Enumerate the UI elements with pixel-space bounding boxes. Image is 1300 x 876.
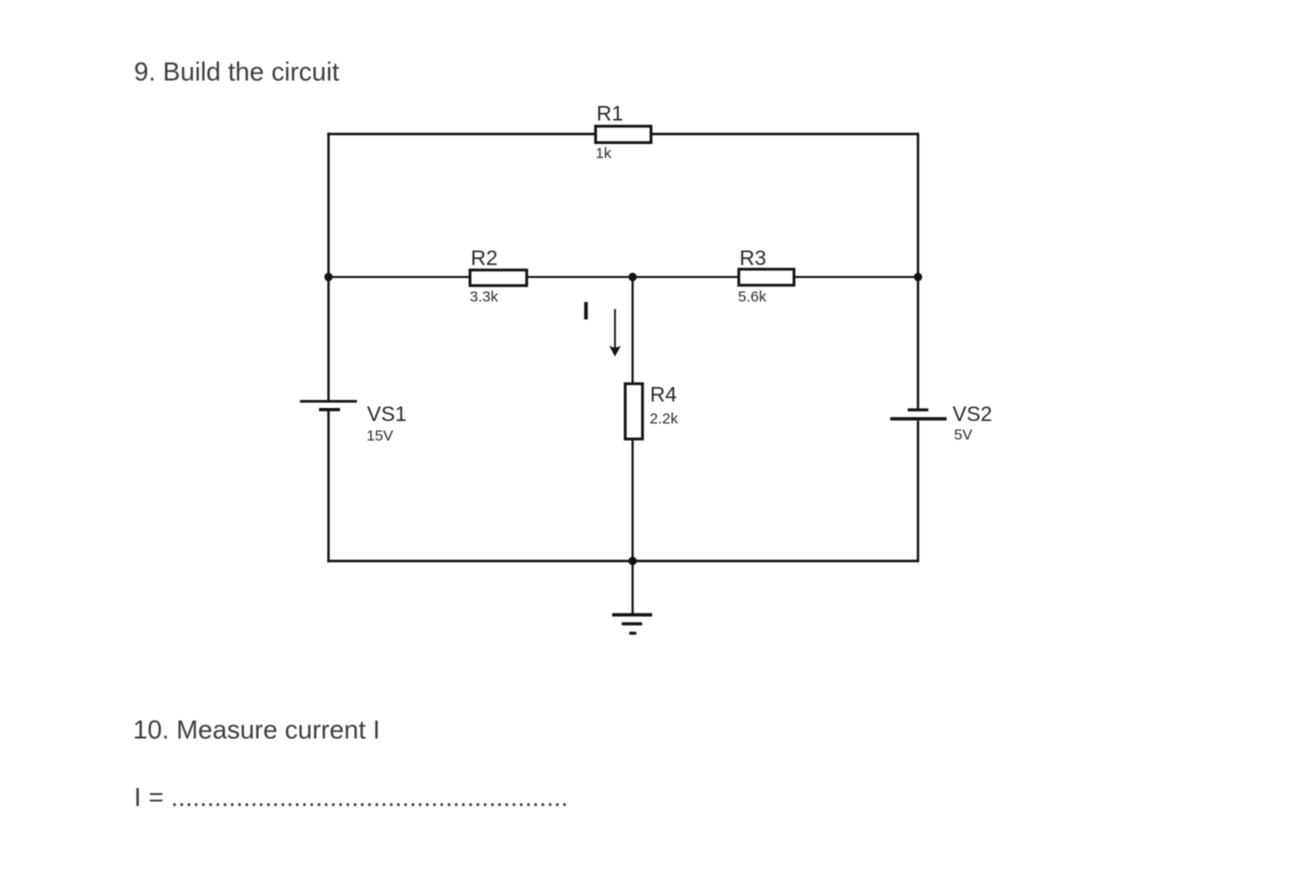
wire: middle vertical branch: [631, 277, 633, 561]
wire: ground stem: [631, 561, 633, 614]
wire: left vertical upper segment: [327, 133, 329, 400]
resistor R1: [596, 126, 651, 142]
svg-text:10. Measure current I: 10. Measure current I: [133, 715, 380, 745]
wire: top horizontal net: [327, 133, 918, 135]
svg-text:2.2k: 2.2k: [650, 411, 679, 428]
voltage source VS1: [300, 401, 357, 409]
ground: [612, 615, 652, 633]
junction: bottom center node: [628, 557, 636, 565]
svg-text:5V: 5V: [954, 427, 972, 444]
svg-text:VS1: VS1: [367, 403, 407, 426]
svg-text:3.3k: 3.3k: [470, 289, 499, 306]
svg-text:9. Build the circuit: 9. Build the circuit: [134, 57, 340, 87]
resistor R2: [470, 270, 527, 286]
wire: left vertical lower segment: [327, 411, 329, 562]
svg-text:R3: R3: [740, 247, 767, 270]
current arrow: [609, 309, 621, 357]
wire: middle horizontal net: [329, 276, 919, 278]
resistor R4: [625, 384, 642, 439]
voltage source VS2: [890, 410, 946, 419]
junction: center middle node: [628, 273, 636, 281]
wire: right vertical upper segment: [917, 133, 919, 409]
svg-text:R1: R1: [597, 103, 624, 126]
wire: bottom horizontal net: [327, 560, 918, 562]
svg-text:R4: R4: [650, 384, 677, 407]
svg-text:5.6k: 5.6k: [738, 289, 767, 306]
svg-text:I: I: [583, 298, 590, 326]
junction: left middle node: [324, 273, 332, 281]
junction: right middle node: [914, 273, 922, 281]
svg-text:VS2: VS2: [953, 403, 993, 426]
svg-text:I = ..........................: I = ....................................…: [134, 782, 568, 812]
svg-text:15V: 15V: [367, 428, 394, 445]
svg-text:1k: 1k: [596, 145, 612, 162]
resistor R3: [739, 269, 794, 285]
wire: right vertical lower segment: [917, 421, 919, 562]
svg-text:R2: R2: [471, 247, 498, 270]
